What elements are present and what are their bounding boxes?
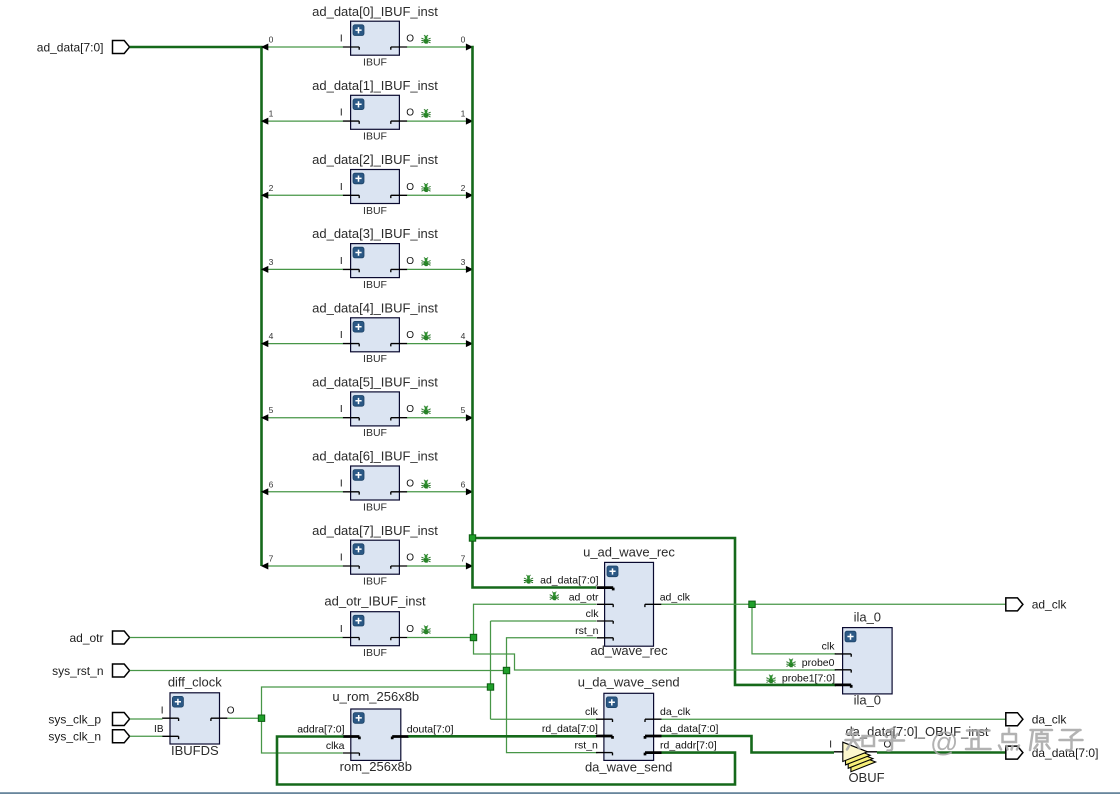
svg-text:O: O — [227, 706, 235, 717]
wire IBUF output 5 to right bus — [407, 405, 473, 421]
svg-text:IB: IB — [154, 724, 164, 735]
buffer ad_otr_IBUF_inst — [324, 594, 430, 659]
wire IBUF output 6 to right bus — [407, 479, 473, 495]
svg-text:sys_clk_p: sys_clk_p — [48, 712, 101, 726]
bus wire douta to rd_data — [408, 735, 596, 738]
wire ad_otr_IBUF output to junction J1 — [407, 637, 474, 639]
svg-text:I: I — [340, 182, 343, 193]
svg-text:ad_data[7]_IBUF_inst: ad_data[7]_IBUF_inst — [312, 523, 438, 538]
bus net ad_data_IBUF right vertical, elbow to u_ad_wave_rec — [473, 46, 597, 588]
buffer ad_data[2]_IBUF_inst — [312, 152, 438, 217]
svg-text:4: 4 — [461, 331, 466, 341]
svg-text:5: 5 — [461, 405, 466, 415]
svg-text:O: O — [406, 330, 414, 341]
svg-text:IBUF: IBUF — [363, 353, 387, 365]
module u_ad_wave_rec — [524, 545, 691, 658]
svg-text:4: 4 — [269, 331, 274, 341]
buffer ad_data[3]_IBUF_inst — [312, 226, 438, 291]
svg-text:I: I — [340, 330, 343, 341]
input port ad_otr — [112, 631, 129, 644]
wire ad_clk from u_ad_wave_rec to output port — [661, 603, 1005, 605]
bus wire probe1[7:0]: right bus to ila_0 — [473, 538, 837, 685]
svg-text:da_wave_send: da_wave_send — [585, 759, 672, 774]
svg-text:IBUF: IBUF — [363, 57, 387, 69]
svg-text:douta[7:0]: douta[7:0] — [407, 724, 454, 736]
svg-text:I: I — [340, 553, 343, 564]
svg-text:I: I — [340, 108, 343, 119]
svg-text:6: 6 — [269, 479, 274, 489]
svg-text:ila_0: ila_0 — [854, 692, 881, 707]
buffer da_data[7:0]_OBUF_inst — [829, 724, 989, 785]
svg-text:IBUF: IBUF — [363, 576, 387, 588]
svg-text:ad_data[2]_IBUF_inst: ad_data[2]_IBUF_inst — [312, 152, 438, 167]
svg-text:rst_n: rst_n — [575, 625, 599, 637]
svg-text:da_clk: da_clk — [660, 706, 691, 718]
input port sys_rst_n — [112, 664, 129, 677]
svg-text:O: O — [406, 624, 414, 635]
buffer ad_data[5]_IBUF_inst — [312, 375, 438, 440]
wire IBUF output 4 to right bus — [407, 331, 473, 347]
wire tap 3 from left bus to IBUF input — [261, 257, 343, 273]
svg-text:I: I — [161, 706, 164, 717]
wire tap 7 from left bus to IBUF input — [261, 554, 343, 570]
svg-text:I: I — [340, 256, 343, 267]
module u_da_wave_send — [542, 675, 719, 775]
svg-text:O: O — [406, 182, 414, 193]
wire da_clk to output port — [662, 718, 1006, 720]
svg-text:O: O — [406, 34, 414, 45]
wire tap 4 from left bus to IBUF input — [261, 331, 343, 347]
svg-text:rom_256x8b: rom_256x8b — [340, 759, 412, 774]
svg-text:0: 0 — [461, 35, 466, 45]
wire rst_n down to da_wave_send — [507, 671, 598, 753]
svg-text:sys_clk_n: sys_clk_n — [48, 730, 101, 744]
svg-text:u_ad_wave_rec: u_ad_wave_rec — [583, 545, 675, 560]
wire sys_rst_n from port to junction J2 — [130, 670, 507, 672]
junction J2 sys_rst_n — [503, 667, 509, 673]
junction J0 clk — [258, 715, 264, 721]
wire tap 1 from left bus to IBUF input — [261, 109, 343, 125]
svg-text:ad_data[1]_IBUF_inst: ad_data[1]_IBUF_inst — [312, 78, 438, 93]
svg-text:rd_data[7:0]: rd_data[7:0] — [542, 723, 598, 735]
wire sys_clk_p to I pin — [130, 718, 163, 720]
junction right bus / probe1 — [469, 535, 475, 541]
output port da_data[7:0] — [1006, 746, 1023, 759]
svg-text:u_da_wave_send: u_da_wave_send — [578, 675, 680, 690]
svg-text:@: @ — [930, 727, 958, 758]
svg-text:0: 0 — [269, 35, 274, 45]
svg-text:da_data[7:0]: da_data[7:0] — [660, 723, 718, 735]
svg-text:5: 5 — [269, 405, 274, 415]
wire IBUF output 0 to right bus — [407, 35, 473, 51]
svg-text:IBUF: IBUF — [363, 131, 387, 143]
svg-text:O: O — [406, 256, 414, 267]
wire tap 5 from left bus to IBUF input — [261, 405, 343, 421]
svg-text:7: 7 — [269, 554, 274, 564]
watermark zhihu @zhengdianyuanzi — [846, 729, 905, 751]
junction J3 clk — [487, 684, 493, 690]
module ila_0 — [766, 609, 892, 707]
svg-text:clka: clka — [326, 740, 345, 752]
input port sys_clk_n — [112, 730, 129, 743]
buffer diff_clock IBUFDS — [154, 674, 235, 758]
svg-text:IBUF: IBUF — [363, 279, 387, 291]
svg-text:clk: clk — [586, 608, 600, 620]
wire ad_otr port to IBUF — [130, 637, 343, 639]
junction J1 ad_otr — [470, 634, 476, 640]
svg-text:ad_data[7:0]: ad_data[7:0] — [37, 40, 104, 54]
buffer ad_data[7]_IBUF_inst — [312, 523, 438, 588]
svg-text:3: 3 — [269, 257, 274, 267]
svg-text:2: 2 — [269, 183, 274, 193]
wire clk down branch to rom clka — [262, 718, 343, 753]
svg-text:I: I — [829, 739, 832, 750]
svg-text:IBUF: IBUF — [363, 205, 387, 217]
svg-text:probe1[7:0]: probe1[7:0] — [782, 673, 835, 685]
wire clk vertical: u_ad_wave_rec clk / da_wave_send clk — [491, 621, 597, 719]
svg-text:I: I — [340, 34, 343, 45]
svg-text:ad_data[5]_IBUF_inst: ad_data[5]_IBUF_inst — [312, 375, 438, 390]
bus wire da_data to OBUF — [662, 736, 835, 753]
svg-text:O: O — [406, 553, 414, 564]
wire clk up branch to J3 — [262, 687, 491, 718]
svg-text:I: I — [340, 478, 343, 489]
svg-text:addra[7:0]: addra[7:0] — [297, 724, 344, 736]
junction J5 ad_clk — [749, 601, 755, 607]
svg-text:ad_otr_IBUF_inst: ad_otr_IBUF_inst — [324, 594, 426, 609]
svg-text:ad_data[6]_IBUF_inst: ad_data[6]_IBUF_inst — [312, 449, 438, 464]
wire ad_clk branch down to ila clk — [752, 604, 836, 654]
svg-text:ad_wave_rec: ad_wave_rec — [590, 643, 668, 658]
buffer ad_data[0]_IBUF_inst — [312, 4, 438, 69]
svg-text:1: 1 — [461, 109, 466, 119]
svg-text:IBUF: IBUF — [363, 647, 387, 659]
svg-text:6: 6 — [461, 479, 466, 489]
wire ad_otr branch down to ila probe0 — [474, 638, 837, 671]
svg-text:diff_clock: diff_clock — [168, 674, 222, 689]
svg-text:3: 3 — [461, 257, 466, 267]
input port sys_clk_p — [112, 713, 129, 726]
wire IBUF output 7 to right bus — [407, 554, 473, 570]
svg-text:rd_addr[7:0]: rd_addr[7:0] — [660, 740, 717, 752]
svg-text:ad_otr: ad_otr — [569, 591, 599, 603]
svg-text:IBUF: IBUF — [363, 501, 387, 513]
svg-text:ad_data[0]_IBUF_inst: ad_data[0]_IBUF_inst — [312, 4, 438, 19]
svg-text:ad_clk: ad_clk — [1032, 598, 1068, 612]
buffer ad_data[6]_IBUF_inst — [312, 449, 438, 514]
buffer ad_data[4]_IBUF_inst — [312, 300, 438, 365]
wire IBUF output 3 to right bus — [407, 257, 473, 273]
wire clk net: diff_clock O to junction J0 — [227, 717, 261, 719]
svg-text:da_clk: da_clk — [1032, 713, 1068, 727]
bus wire OBUF output to da_data port — [877, 751, 1006, 754]
svg-text:1: 1 — [269, 109, 274, 119]
bus wire rd_addr loop: da_wave_send to rom addra — [277, 737, 735, 785]
svg-text:sys_rst_n: sys_rst_n — [52, 664, 103, 678]
svg-text:OBUF: OBUF — [848, 770, 884, 785]
wire tap 6 from left bus to IBUF input — [261, 479, 343, 495]
svg-text:O: O — [406, 108, 414, 119]
svg-text:u_rom_256x8b: u_rom_256x8b — [332, 689, 419, 704]
wire tap 2 from left bus to IBUF input — [261, 183, 343, 199]
wire IBUF output 1 to right bus — [407, 109, 473, 125]
output port ad_clk — [1006, 598, 1023, 611]
svg-text:ad_data[3]_IBUF_inst: ad_data[3]_IBUF_inst — [312, 226, 438, 241]
svg-text:IBUF: IBUF — [363, 427, 387, 439]
bus wire ad_data[7:0]: port to left bus vertical — [130, 46, 262, 566]
buffer ad_data[1]_IBUF_inst — [312, 78, 438, 143]
wire rst_n up to u_ad_wave_rec — [507, 638, 597, 671]
svg-text:ad_otr: ad_otr — [69, 631, 103, 645]
svg-text:ila_0: ila_0 — [854, 609, 881, 624]
svg-text:7: 7 — [461, 554, 466, 564]
wire IBUF output 2 to right bus — [407, 183, 473, 199]
svg-text:I: I — [340, 404, 343, 415]
svg-text:clk: clk — [585, 706, 599, 718]
module u_rom_256x8b — [297, 689, 453, 774]
svg-text:rst_n: rst_n — [575, 740, 599, 752]
svg-text:O: O — [406, 404, 414, 415]
svg-text:probe0: probe0 — [802, 657, 835, 669]
bottom window edge strip — [0, 792, 1120, 794]
svg-text:clk: clk — [822, 641, 836, 653]
wire sys_clk_n to IB pin — [130, 735, 163, 737]
svg-text:ad_clk: ad_clk — [660, 591, 691, 603]
svg-text:I: I — [340, 624, 343, 635]
wire tap 0 from left bus to IBUF input — [261, 35, 343, 51]
svg-text:2: 2 — [461, 183, 466, 193]
output port da_clk — [1006, 713, 1023, 726]
svg-text:ad_data[7:0]: ad_data[7:0] — [540, 575, 598, 587]
svg-text:IBUFDS: IBUFDS — [171, 743, 219, 758]
svg-text:ad_data[4]_IBUF_inst: ad_data[4]_IBUF_inst — [312, 300, 438, 315]
svg-text:O: O — [406, 478, 414, 489]
wire ad_otr up to u_ad_wave_rec ad_otr pin — [474, 604, 597, 637]
input port ad_data[7:0] — [112, 41, 129, 54]
